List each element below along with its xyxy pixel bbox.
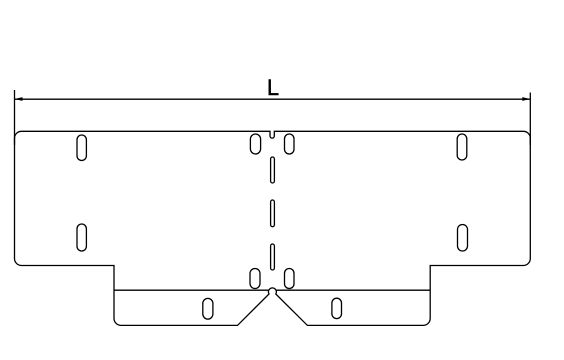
slot tab-left	[203, 298, 213, 319]
dimension line L	[15, 98, 530, 100]
oval top-center-right	[285, 134, 295, 154]
arrowhead left	[15, 97, 23, 101]
center slot 2	[271, 200, 275, 227]
slot bottom-right edge	[458, 225, 468, 252]
oval bottom-center-right	[285, 269, 295, 289]
fold line right segment	[276, 289, 430, 291]
arrowhead right	[522, 97, 530, 101]
extension line right	[529, 93, 531, 146]
slot top-right edge	[457, 134, 467, 160]
svg-text:L: L	[267, 75, 279, 100]
oval bottom-center-left	[250, 269, 260, 289]
part outline	[15, 131, 531, 325]
slot bottom-left edge	[77, 224, 86, 251]
fold line left segment	[114, 289, 269, 291]
oval top-center-left	[250, 134, 260, 154]
center slot 3	[271, 244, 275, 270]
center slot 1	[271, 157, 275, 183]
slot tab-right	[332, 298, 342, 318]
extension line left	[14, 90, 16, 145]
slot top-left edge	[77, 135, 86, 161]
